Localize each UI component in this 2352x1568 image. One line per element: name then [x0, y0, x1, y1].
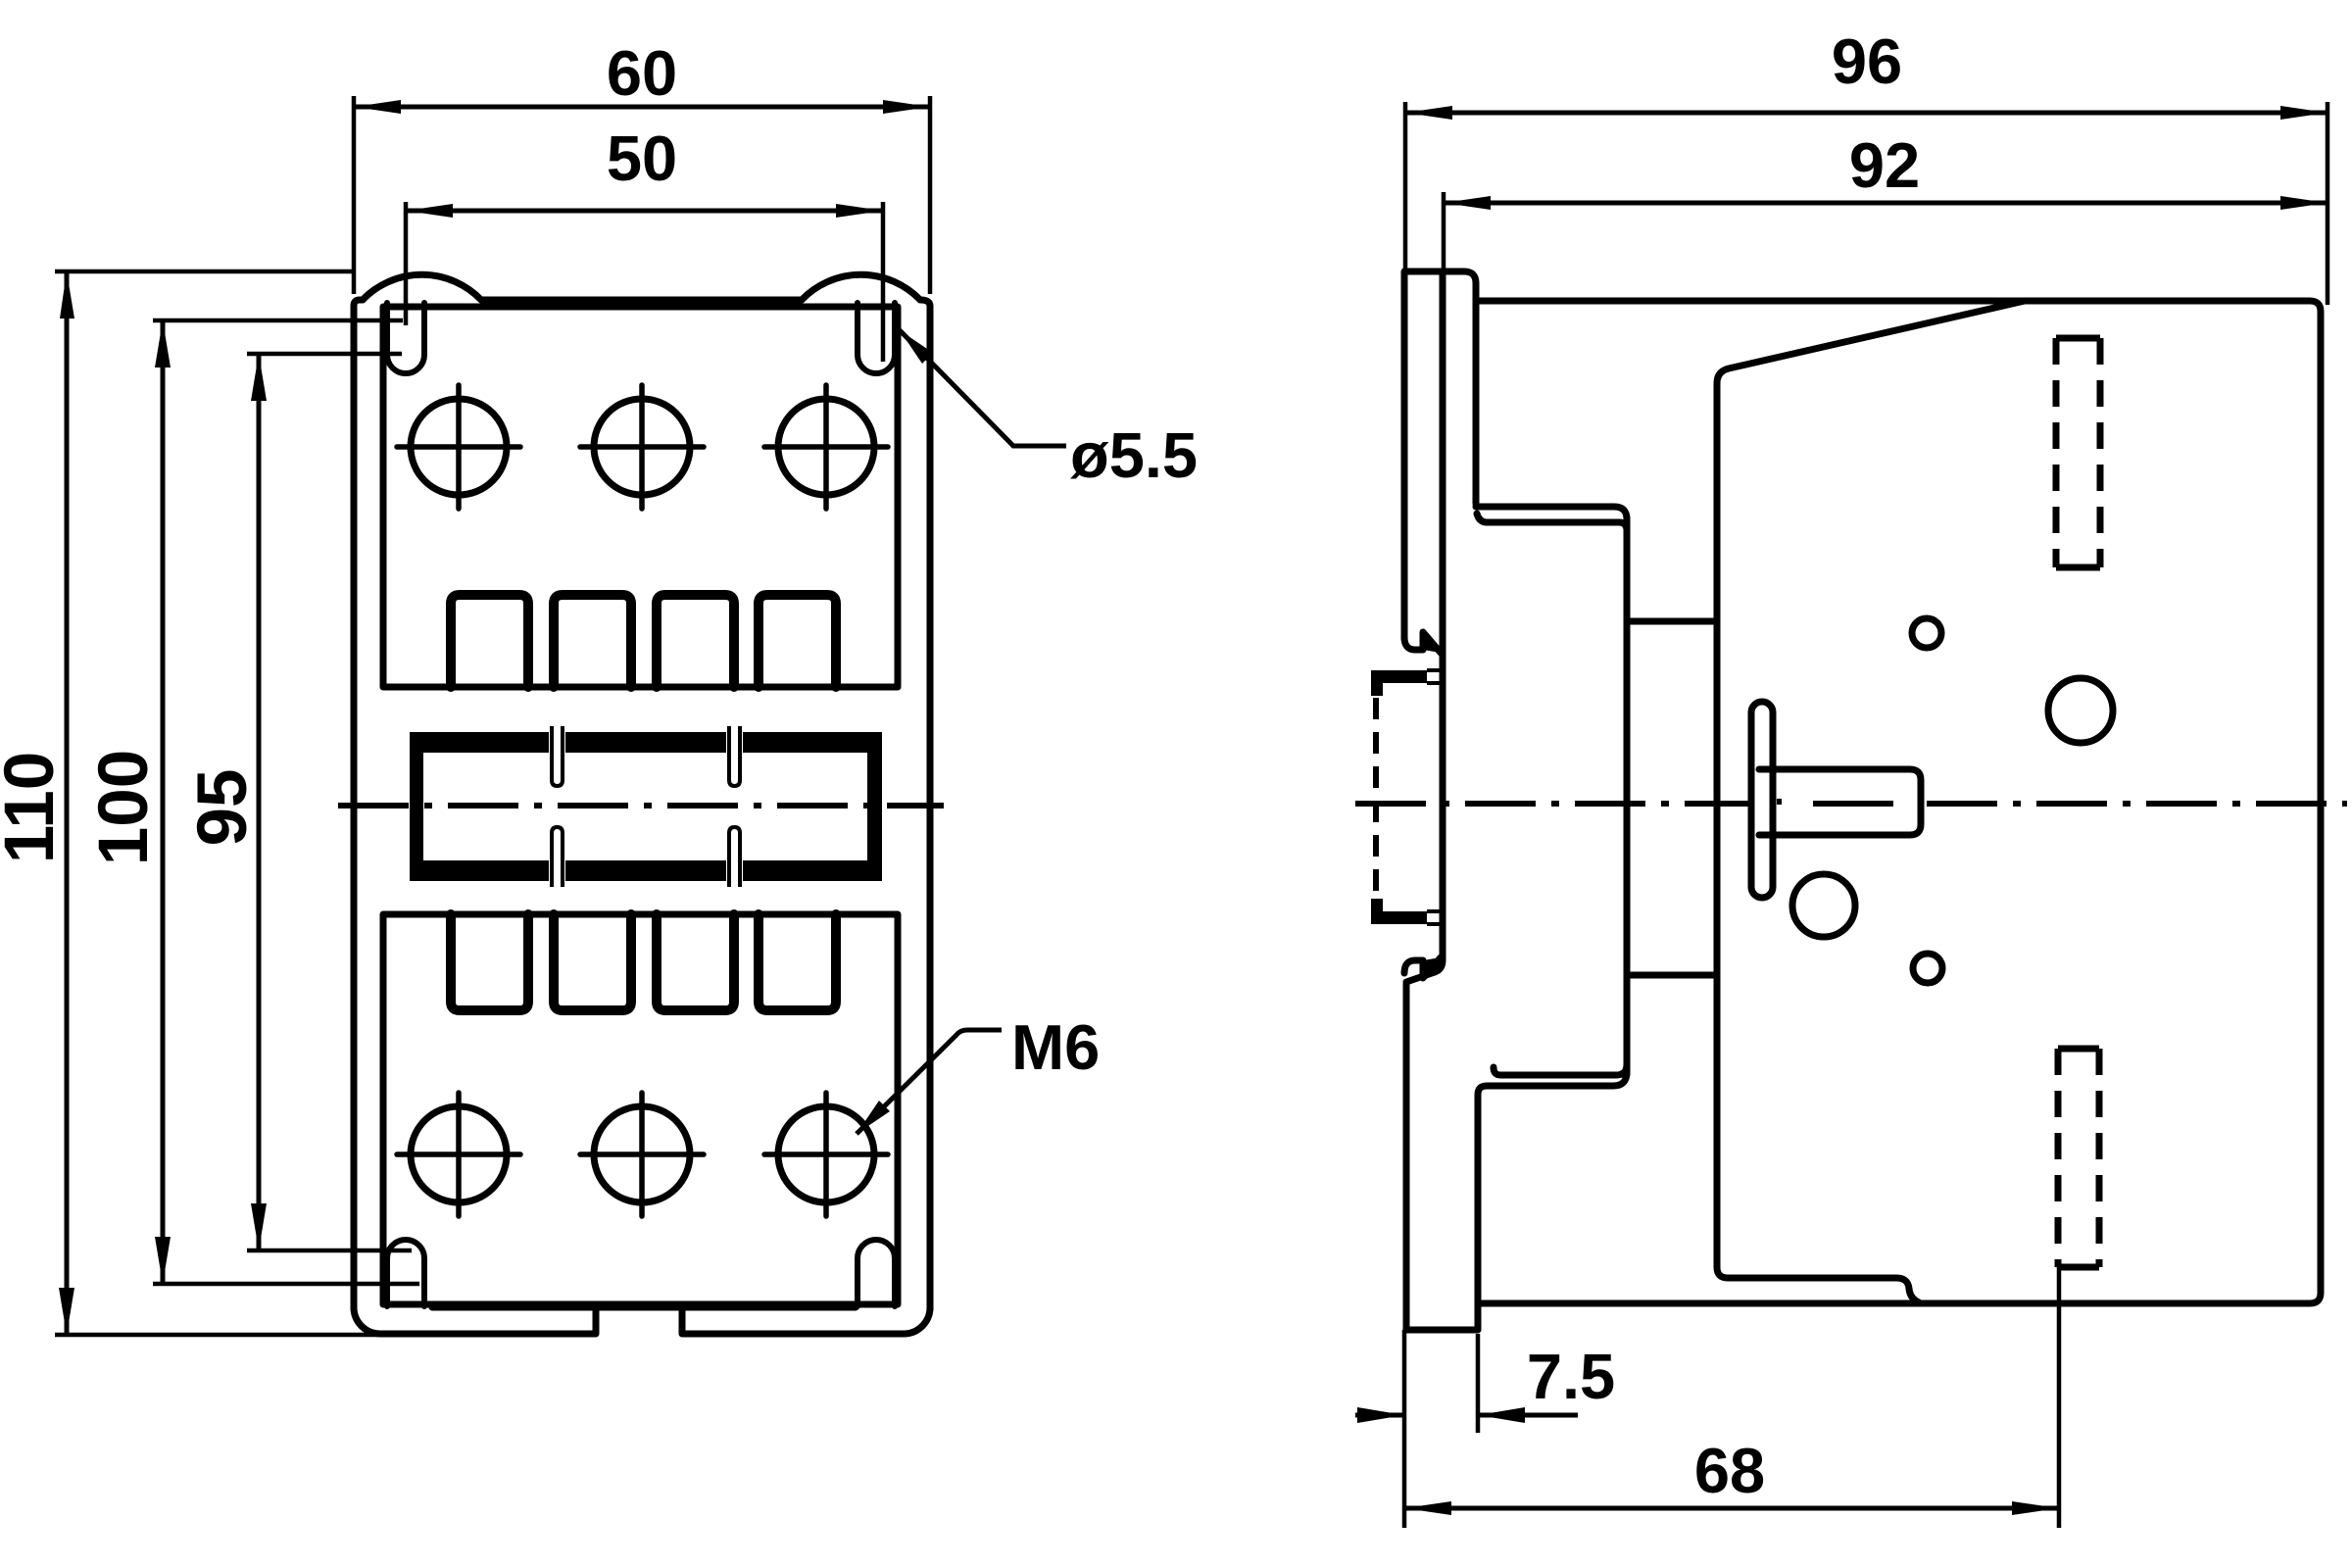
svg-text:110: 110	[0, 752, 69, 864]
svg-text:92: 92	[1849, 129, 1920, 201]
svg-text:100: 100	[85, 750, 163, 865]
svg-text:ø5.5: ø5.5	[1070, 419, 1198, 491]
svg-text:7.5: 7.5	[1527, 1341, 1615, 1412]
svg-text:M6: M6	[1011, 1011, 1100, 1083]
svg-text:50: 50	[607, 122, 677, 194]
svg-text:68: 68	[1694, 1435, 1765, 1506]
svg-text:96: 96	[1832, 25, 1902, 97]
svg-text:60: 60	[607, 37, 677, 109]
svg-text:95: 95	[184, 769, 262, 847]
